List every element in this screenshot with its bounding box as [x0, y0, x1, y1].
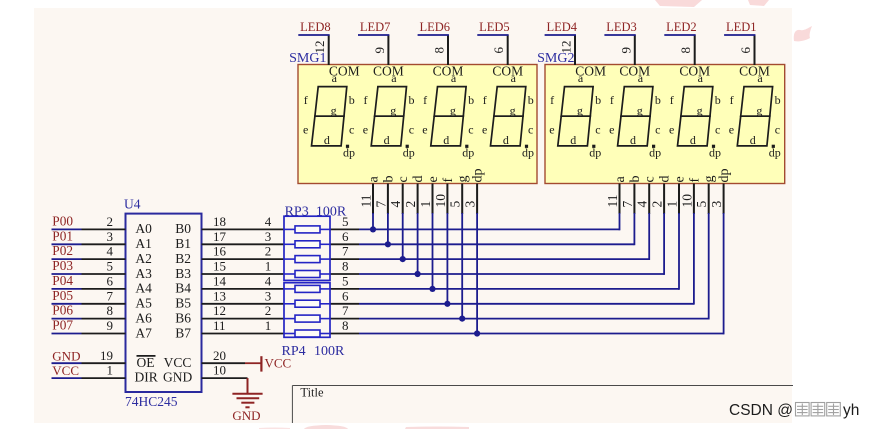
SMG1 vertical wire f [446, 213, 448, 304]
svg-text:8: 8 [342, 259, 349, 274]
svg-text:c: c [643, 176, 658, 182]
svg-text:P04: P04 [52, 273, 73, 288]
svg-text:A2: A2 [135, 251, 152, 266]
SMG1 vertical wire a [372, 213, 374, 229]
svg-text:1: 1 [265, 259, 272, 274]
SMG1 vertical wire e [432, 213, 434, 289]
svg-text:g: g [697, 103, 703, 117]
svg-text:P07: P07 [52, 318, 73, 333]
svg-text:dp: dp [589, 145, 601, 159]
U4 pin 13 (B5) wire to RP [202, 303, 285, 305]
horizontal net wire row 1 (segment a) [359, 228, 620, 230]
svg-text:f: f [670, 93, 674, 107]
svg-text:e: e [669, 122, 674, 136]
svg-text:9: 9 [372, 47, 387, 54]
svg-text:b: b [595, 93, 601, 107]
watermark fragment bottom-3 [405, 427, 469, 430]
svg-text:16: 16 [213, 244, 227, 259]
wire stub net LED2 [664, 34, 695, 36]
U4 pin 5 (A3) with net label P03 and wire [52, 273, 82, 275]
svg-text:COM: COM [373, 64, 404, 79]
svg-text:B3: B3 [175, 266, 191, 281]
svg-text:3: 3 [265, 288, 272, 303]
svg-text:P02: P02 [52, 243, 73, 258]
horizontal net wire row 3 (segment c) [359, 258, 649, 260]
svg-text:1: 1 [265, 318, 272, 333]
SMG1 segment pin a (11) [372, 184, 374, 215]
svg-text:18: 18 [213, 214, 226, 229]
svg-text:7: 7 [107, 288, 114, 303]
svg-text:g: g [702, 176, 717, 183]
svg-text:LED2: LED2 [666, 20, 697, 34]
svg-text:4: 4 [107, 244, 114, 259]
U4 pin 14 (B4) wire to RP [202, 288, 285, 290]
svg-text:9: 9 [618, 47, 633, 54]
svg-text:CSDN @: CSDN @ [729, 402, 793, 419]
SMG1 vertical wire c [402, 213, 404, 259]
SMG1 digit 1 glyph and segment labels [312, 87, 347, 146]
svg-text:9: 9 [107, 318, 114, 333]
svg-text:d: d [658, 176, 673, 183]
svg-text:g: g [331, 103, 337, 117]
svg-text:P03: P03 [52, 258, 73, 273]
svg-text:f: f [423, 93, 427, 107]
svg-text:1: 1 [107, 363, 114, 378]
svg-text:5: 5 [448, 201, 463, 208]
svg-text:12: 12 [312, 41, 327, 54]
svg-text:3: 3 [265, 229, 272, 244]
svg-text:A3: A3 [135, 266, 152, 281]
svg-text:g: g [577, 103, 583, 117]
svg-text:e: e [482, 122, 487, 136]
svg-text:2: 2 [403, 201, 418, 208]
svg-text:c: c [775, 122, 780, 136]
resistor pack pin 5 (right) and black pin stub [330, 228, 359, 230]
svg-text:10: 10 [213, 363, 226, 378]
svg-text:d: d [503, 133, 509, 147]
svg-text:P00: P00 [52, 214, 73, 229]
watermark fragment top-right-1 [748, 0, 769, 6]
SMG1 COM pin 9 [387, 35, 389, 65]
SMG2 vertical wire b [633, 213, 635, 245]
svg-text:b: b [655, 93, 661, 107]
svg-text:5: 5 [342, 274, 349, 289]
svg-text:RP4: RP4 [282, 344, 306, 359]
svg-text:20: 20 [213, 348, 226, 363]
SMG2 vertical wire f [693, 213, 695, 305]
svg-text:dp: dp [522, 145, 534, 159]
resistor element RP4-4 [284, 333, 295, 335]
svg-text:B1: B1 [175, 236, 191, 251]
U4 pin 6 (A4) with net label P04 and wire [52, 288, 82, 290]
svg-text:5: 5 [107, 259, 114, 274]
svg-text:g: g [390, 103, 396, 117]
SMG1 segment pin c (4) [402, 184, 404, 215]
wire stub net LED8 [298, 34, 329, 36]
resistor pack pin 7 (right) and black pin stub [330, 258, 359, 260]
resistor element RP3-3 [284, 258, 295, 260]
U4 pin 9 (A7) with net label P07 and wire [52, 333, 82, 335]
svg-text:f: f [304, 93, 308, 107]
svg-text:P01: P01 [52, 228, 73, 243]
svg-text:Title: Title [300, 386, 324, 400]
svg-text:10: 10 [433, 194, 448, 208]
title block border [292, 385, 793, 387]
svg-text:74HC245: 74HC245 [125, 394, 178, 409]
SMG2 segment pin dp (3) [723, 184, 725, 215]
svg-text:c: c [595, 122, 600, 136]
junction dot e [429, 286, 435, 292]
svg-text:f: f [730, 93, 734, 107]
svg-text:COM: COM [492, 64, 523, 79]
SMG2 digit 3 glyph and segment labels [678, 87, 713, 146]
resistor element RP4-3 [284, 318, 295, 320]
watermark CJK glyph boxes [796, 403, 841, 416]
svg-text:c: c [409, 122, 414, 136]
resistor pack pin 5 (right) and black pin stub [330, 288, 359, 290]
svg-text:GND: GND [163, 370, 192, 385]
SMG1 segment pin f (10) [446, 184, 448, 215]
U4 pin 2 (A0) with net label P00 and wire [52, 228, 82, 230]
svg-text:6: 6 [738, 47, 753, 54]
SMG1 digit 4 glyph and segment labels [491, 87, 526, 146]
wire stub net LED4 [545, 34, 576, 36]
svg-text:d: d [384, 133, 390, 147]
svg-text:b: b [628, 176, 643, 183]
resistor pack pin 6 (right) and black pin stub [330, 243, 359, 245]
svg-text:LED1: LED1 [726, 20, 757, 34]
U4 pin 19 (OE) with net label GND [52, 362, 82, 364]
svg-text:VCC: VCC [52, 363, 79, 378]
svg-text:6: 6 [342, 229, 349, 244]
SMG2 segment pin d (2) [663, 184, 665, 215]
junction dot dp [474, 330, 480, 336]
svg-text:P05: P05 [52, 288, 73, 303]
resistor pack pin 8 (right) and black pin stub [330, 273, 359, 275]
resistor pack pin 7 (right) and black pin stub [330, 318, 359, 320]
wire stub net LED6 [418, 34, 449, 36]
SMG1 vertical wire g [461, 213, 463, 319]
power port VCC (bar) [245, 362, 261, 364]
svg-text:c: c [468, 122, 473, 136]
svg-text:LED7: LED7 [360, 20, 391, 34]
svg-text:COM: COM [575, 64, 606, 79]
SMG2 COM pin 12 [574, 35, 576, 65]
watermark fragment bottom-1 [259, 428, 290, 430]
svg-text:LED6: LED6 [419, 20, 450, 34]
U4 pin 17 (B1) wire to RP [202, 243, 285, 245]
svg-text:c: c [396, 176, 411, 182]
svg-text:A0: A0 [135, 221, 152, 236]
SMG1 segment pin dp (3) [476, 184, 478, 215]
svg-text:100R: 100R [316, 204, 347, 219]
svg-text:1: 1 [418, 201, 433, 208]
svg-text:LED8: LED8 [300, 20, 331, 34]
horizontal net wire row 8 (segment dp) [359, 333, 724, 335]
svg-text:g: g [450, 103, 456, 117]
svg-text:g: g [510, 103, 516, 117]
resistor element RP3-2 [284, 243, 295, 245]
svg-text:dp: dp [343, 145, 355, 159]
SMG2 COM pin 8 [694, 35, 696, 65]
SMG2 segment pin g (5) [708, 184, 710, 215]
U4 pin 8 (A6) with net label P06 and wire [52, 318, 82, 320]
svg-text:11: 11 [605, 195, 620, 208]
svg-text:DIR: DIR [135, 370, 158, 385]
SMG2 segment pin f (10) [693, 184, 695, 215]
SMG2 vertical wire a [619, 213, 621, 230]
SMG1 vertical wire dp [476, 213, 478, 334]
resistor pack RP3 body [284, 216, 330, 280]
svg-text:4: 4 [265, 274, 272, 289]
svg-text:B2: B2 [175, 251, 191, 266]
junction dot f [444, 301, 450, 307]
junction dot d [415, 271, 421, 277]
svg-text:17: 17 [213, 229, 227, 244]
svg-text:b: b [775, 93, 781, 107]
svg-text:A4: A4 [135, 281, 152, 296]
U4 pin 11 (B7) wire to RP [202, 333, 285, 335]
watermark fragment bottom-2 [304, 425, 348, 429]
SMG2 vertical wire d [663, 213, 665, 275]
svg-text:d: d [570, 133, 576, 147]
svg-text:b: b [381, 176, 396, 183]
horizontal net wire row 7 (segment g) [359, 318, 709, 320]
power port GND (earth symbol) [232, 378, 262, 407]
svg-text:c: c [655, 122, 660, 136]
svg-text:g: g [637, 103, 643, 117]
svg-text:f: f [364, 93, 368, 107]
SMG2 segment pin c (4) [648, 184, 650, 215]
svg-text:a: a [367, 176, 382, 183]
SMG1 vertical wire b [387, 213, 389, 244]
svg-text:B6: B6 [175, 310, 191, 325]
junction dot b [385, 241, 391, 247]
svg-text:14: 14 [213, 274, 227, 289]
svg-text:yh: yh [843, 402, 859, 419]
svg-text:LED5: LED5 [479, 20, 510, 34]
svg-text:f: f [441, 178, 456, 183]
SMG2 segment pin b (7) [633, 184, 635, 215]
7-segment display module SMG1 body [298, 65, 537, 184]
U4 pin 15 (B3) wire to RP [202, 273, 285, 275]
svg-text:7: 7 [620, 201, 635, 208]
svg-text:B4: B4 [175, 281, 191, 296]
U4 pin 16 (B2) wire to RP [202, 258, 285, 260]
svg-text:7: 7 [342, 303, 349, 318]
watermark fragment top-center [655, 0, 702, 7]
svg-text:LED3: LED3 [606, 20, 637, 34]
U4 pin 4 (A2) with net label P02 and wire [52, 258, 82, 260]
svg-text:U4: U4 [124, 197, 141, 212]
svg-text:8: 8 [432, 47, 447, 54]
svg-text:12: 12 [213, 303, 226, 318]
svg-text:b: b [409, 93, 415, 107]
svg-text:10: 10 [679, 194, 694, 208]
svg-text:COM: COM [619, 64, 650, 79]
junction dot a [370, 226, 376, 232]
resistor element RP3-4 [284, 273, 295, 275]
svg-text:e: e [549, 122, 554, 136]
resistor pack pin 8 (right) and black pin stub [330, 333, 359, 335]
junction dot g [459, 316, 465, 322]
svg-text:2: 2 [265, 244, 272, 259]
SMG1 COM pin 8 [447, 35, 449, 65]
svg-text:2: 2 [265, 303, 272, 318]
svg-text:VCC: VCC [164, 355, 192, 370]
svg-text:d: d [324, 133, 330, 147]
svg-text:1: 1 [665, 201, 680, 208]
svg-text:7: 7 [373, 201, 388, 208]
svg-text:12: 12 [559, 41, 574, 54]
svg-text:b: b [715, 93, 721, 107]
svg-text:A5: A5 [135, 296, 152, 311]
svg-text:c: c [715, 122, 720, 136]
SMG1 vertical wire d [417, 213, 419, 274]
SMG2 digit 4 glyph and segment labels [737, 87, 772, 146]
svg-text:8: 8 [678, 47, 693, 54]
svg-text:8: 8 [342, 318, 349, 333]
svg-text:e: e [303, 122, 308, 136]
svg-text:COM: COM [679, 64, 710, 79]
watermark fragment top-right-2 [794, 26, 812, 41]
SMG2 vertical wire c [648, 213, 650, 260]
svg-text:e: e [426, 176, 441, 182]
wire stub net LED3 [604, 34, 635, 36]
svg-text:dp: dp [709, 145, 721, 159]
svg-text:e: e [729, 122, 734, 136]
svg-text:OE: OE [137, 355, 155, 370]
svg-text:15: 15 [213, 259, 226, 274]
svg-text:d: d [411, 176, 426, 183]
SMG1 segment pin d (2) [417, 184, 419, 215]
resistor pack pin 6 (right) and black pin stub [330, 303, 359, 305]
junction dot c [400, 256, 406, 262]
svg-text:COM: COM [433, 64, 464, 79]
svg-text:e: e [609, 122, 614, 136]
svg-text:A7: A7 [135, 325, 152, 340]
svg-text:8: 8 [107, 303, 114, 318]
svg-text:dp: dp [471, 169, 486, 183]
svg-text:6: 6 [491, 47, 506, 54]
svg-text:RP3: RP3 [285, 204, 309, 219]
svg-text:19: 19 [100, 348, 113, 363]
resistor element RP4-2 [284, 303, 295, 305]
svg-text:11: 11 [359, 195, 374, 208]
svg-text:f: f [610, 93, 614, 107]
svg-text:3: 3 [463, 201, 478, 208]
svg-text:COM: COM [329, 64, 360, 79]
svg-text:13: 13 [213, 288, 226, 303]
svg-text:P06: P06 [52, 303, 73, 318]
svg-text:e: e [363, 122, 368, 136]
SMG2 vertical wire e [678, 213, 680, 290]
SMG2 digit 2 glyph and segment labels [618, 87, 653, 146]
horizontal net wire row 2 (segment b) [359, 243, 634, 245]
svg-text:e: e [673, 176, 688, 182]
SMG2 COM pin 6 [754, 35, 756, 65]
svg-text:e: e [422, 122, 427, 136]
svg-text:g: g [756, 103, 762, 117]
resistor element RP3-1 [284, 228, 295, 230]
SMG2 digit 1 glyph and segment labels [558, 87, 593, 146]
svg-text:4: 4 [635, 201, 650, 208]
svg-text:b: b [468, 93, 474, 107]
svg-text:GND: GND [52, 348, 80, 363]
U4 pin 10 wire [202, 377, 248, 379]
SMG2 vertical wire g [708, 213, 710, 320]
svg-text:2: 2 [650, 201, 665, 208]
svg-text:A6: A6 [135, 310, 152, 325]
svg-text:c: c [349, 122, 354, 136]
resistor pack RP4 body [284, 283, 330, 338]
svg-text:f: f [483, 93, 487, 107]
horizontal net wire row 6 (segment f) [359, 303, 694, 305]
svg-text:B0: B0 [175, 221, 191, 236]
7-segment display module SMG2 body [545, 65, 785, 184]
svg-text:B7: B7 [175, 325, 191, 340]
svg-text:B5: B5 [175, 296, 191, 311]
svg-text:11: 11 [213, 318, 226, 333]
U4 pin 12 (B6) wire to RP [202, 318, 285, 320]
svg-text:dp: dp [649, 145, 661, 159]
svg-text:c: c [528, 122, 533, 136]
SMG1 segment pin g (5) [461, 184, 463, 215]
svg-text:6: 6 [342, 288, 349, 303]
SMG2 vertical wire dp [723, 213, 725, 334]
SMG2 segment pin e (1) [678, 184, 680, 215]
svg-text:COM: COM [739, 64, 770, 79]
SMG1 segment pin e (1) [432, 184, 434, 215]
svg-text:dp: dp [769, 145, 781, 159]
svg-text:dp: dp [462, 145, 474, 159]
svg-text:dp: dp [717, 169, 732, 183]
horizontal net wire row 5 (segment e) [359, 288, 679, 290]
svg-text:100R: 100R [314, 344, 345, 359]
IC U4 74HC245 body [126, 214, 202, 392]
SMG1 digit 3 glyph and segment labels [431, 87, 466, 146]
svg-text:a: a [613, 176, 628, 183]
wire stub net LED1 [724, 34, 755, 36]
SMG1 COM pin 6 [507, 35, 509, 65]
svg-text:d: d [690, 133, 696, 147]
svg-text:7: 7 [342, 244, 349, 259]
svg-text:d: d [750, 133, 756, 147]
wire stub net LED7 [358, 34, 389, 36]
svg-text:3: 3 [709, 201, 724, 208]
SMG2 segment pin a (11) [619, 184, 621, 215]
svg-text:LED4: LED4 [546, 20, 577, 34]
svg-text:4: 4 [388, 201, 403, 208]
svg-text:GND: GND [232, 408, 260, 423]
U4 pin 1 (DIR) with net label VCC [52, 377, 82, 379]
wire stub net LED5 [477, 34, 508, 36]
svg-text:f: f [687, 178, 702, 183]
svg-text:g: g [456, 176, 471, 183]
horizontal net wire row 4 (segment d) [359, 273, 664, 275]
svg-text:5: 5 [694, 201, 709, 208]
svg-text:b: b [349, 93, 355, 107]
U4 pin 3 (A1) with net label P01 and wire [52, 243, 82, 245]
svg-text:d: d [630, 133, 636, 147]
svg-text:2: 2 [107, 214, 114, 229]
SMG2 COM pin 9 [634, 35, 636, 65]
svg-text:d: d [443, 133, 449, 147]
SMG1 digit 2 glyph and segment labels [371, 87, 406, 146]
resistor element RP4-1 [284, 288, 295, 290]
svg-text:6: 6 [107, 274, 114, 289]
svg-text:A1: A1 [135, 236, 152, 251]
